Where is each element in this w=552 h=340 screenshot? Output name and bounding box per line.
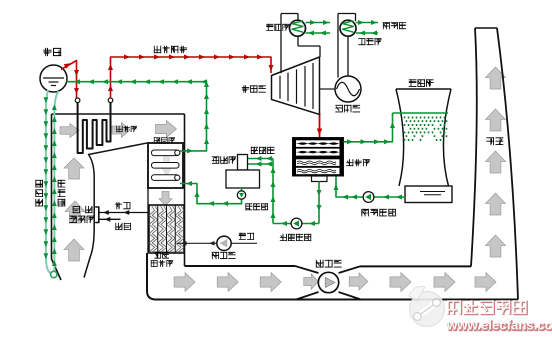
label 冷却塔 cooling tower	[409, 79, 434, 87]
waterwall lower header	[51, 271, 57, 277]
label 过热器 superheater	[116, 126, 137, 132]
circulating water pump	[363, 192, 374, 203]
generator	[335, 76, 361, 102]
watermark text 电子发烧友	[447, 300, 527, 315]
label 下降管 downcomer	[35, 180, 43, 207]
condenser tube bundles	[296, 140, 340, 147]
generator air cooler stand	[338, 13, 356, 15]
waterwall riser pipe	[54, 91, 58, 272]
condensate line into deaerator dome	[248, 163, 274, 165]
chimney top opening	[475, 27, 497, 29]
label 冷油器 oil cooler	[266, 24, 289, 31]
watermark text www.elecfans.com	[446, 318, 552, 334]
cooling tower spray droplets	[405, 117, 447, 141]
cooling tower basin	[405, 186, 452, 203]
duct left wall below air preheater	[147, 253, 156, 300]
flue gas arrow up in furnace 2	[65, 201, 85, 223]
flue gas arrow right at boiler top 3	[156, 121, 177, 138]
flue gas arrow right at boiler top 2	[112, 123, 130, 138]
label 预热器 air preheater line2	[151, 260, 173, 267]
chimney left wall	[471, 28, 477, 266]
flue gas arrows up in chimney	[486, 67, 506, 89]
label 烟囱 chimney	[486, 137, 503, 145]
bottom flue duct top edge left of fan	[185, 265, 296, 267]
cooling tower shell	[396, 89, 451, 186]
oil cooler stand	[281, 13, 298, 15]
duct venturi into induced draft fan	[295, 266, 319, 273]
label 吹风机 forced draft blower	[212, 252, 236, 259]
economizer box	[148, 143, 183, 188]
air preheater cell dividers	[157, 205, 159, 253]
label 循环水泵 circulating water pump	[361, 209, 396, 217]
air cooler cooling water out	[356, 22, 378, 24]
label 冷风 cold air	[239, 233, 254, 240]
main superheated steam pipe to turbine	[111, 57, 272, 98]
feedwater pump	[237, 191, 245, 199]
makeup water line into deaerator dome	[248, 158, 274, 160]
boiler left wall	[51, 114, 53, 259]
label 粉煤 coal powder	[115, 223, 131, 230]
deaerator tank	[226, 170, 260, 188]
bottom flue duct top edge right of fan	[360, 265, 471, 267]
duct venturi out of induced draft fan	[339, 266, 361, 273]
economizer tube rows	[152, 150, 180, 156]
chimney right wall	[497, 28, 518, 300]
oil cooler cooling water in	[306, 32, 331, 34]
superheater inlet header valve circle	[75, 98, 80, 103]
label 热风 hot air	[115, 202, 131, 209]
condenser shell	[293, 138, 344, 177]
economizer outlet pipe to drum	[67, 82, 207, 151]
oil cooler	[290, 20, 306, 36]
flue gas arrow right at boiler top 1	[60, 124, 79, 138]
rear gas pass left wall	[147, 143, 149, 253]
turbine blade rows	[279, 76, 281, 99]
svg-text:www.elecfans.com: www.elecfans.com	[446, 318, 552, 333]
air preheater matrix hatching	[149, 206, 184, 252]
flue gas arrows right in bottom duct	[174, 273, 195, 292]
label 给水泵 feedwater pump	[245, 203, 268, 210]
generator air cooler	[340, 20, 356, 36]
economizer outlet circle top	[175, 150, 180, 155]
boiler hopper left slope	[52, 259, 62, 280]
steam drum	[40, 65, 67, 92]
turbine exhaust steam pipe to condenser	[319, 113, 321, 137]
air preheater box	[149, 205, 184, 253]
label 发电机 generator	[335, 105, 360, 113]
superheater coil	[78, 103, 111, 153]
condenser hotwell	[312, 176, 328, 182]
watermark elecfans logo	[409, 286, 445, 326]
economizer inlet circle bottom	[175, 175, 180, 180]
label 煤粉 burner line1	[73, 206, 93, 213]
label 补充水 makeup water	[251, 147, 275, 154]
coal powder line to burner	[100, 218, 121, 220]
label 水冷壁 waterwall	[58, 180, 66, 207]
cooling tower spray header	[393, 112, 449, 114]
label 省煤器 economizer	[154, 137, 175, 143]
downcomer pipe	[46, 90, 54, 275]
condensate pipe hotwell down	[318, 182, 320, 224]
label 汽包 steam drum	[43, 48, 61, 56]
label 燃烧器 burner line2	[69, 216, 94, 224]
label 除氧器 deaerator	[212, 156, 236, 164]
flue gas arrow up in furnace 1	[64, 158, 84, 179]
flue gas arrow down between economizer and air preheater	[159, 192, 172, 206]
superheater outlet header valve circle	[108, 98, 113, 103]
condensate riser to deaerator	[272, 159, 274, 224]
label 过热蒸汽 superheated steam	[154, 46, 187, 53]
saturated steam pipe drum to superheater	[61, 61, 77, 99]
hot air line to burner	[100, 212, 150, 214]
label 循环水 circulating water	[383, 22, 406, 29]
condensate pipe to pump	[273, 223, 319, 225]
label 引风机 induced draft fan	[316, 260, 342, 268]
bottom flue duct bottom edge	[156, 299, 518, 301]
label 凝汽器 condenser	[346, 159, 370, 166]
deaerator dome	[238, 155, 248, 171]
circulating water pipe pump to condenser	[336, 177, 363, 198]
label 凝结水泵 condensate pump	[280, 234, 312, 241]
circulating water pipe basin to pump	[375, 196, 406, 198]
boiler roof	[52, 113, 185, 115]
cold air line through forced draft blower	[177, 242, 257, 244]
rear gas pass right wall	[184, 114, 186, 266]
turbine generator shaft	[320, 88, 336, 90]
pulverized coal burner	[95, 207, 99, 223]
induced draft fan	[318, 272, 338, 292]
air cooler cooling water in	[356, 32, 378, 34]
label 风冷器 air cooler	[358, 38, 381, 45]
furnace right wall with nose	[84, 143, 148, 278]
oil cooler cooling water out	[306, 22, 331, 24]
feedwater pipe pump to economizer	[180, 184, 242, 204]
flue gas ghost arrow down inside economizer	[160, 154, 173, 177]
label 空气 air preheater line1	[154, 252, 169, 259]
circulating water pipe condenser to tower	[344, 113, 393, 142]
flue gas arrow up in furnace 3	[64, 239, 84, 261]
forced draft blower	[217, 236, 231, 250]
label 汽轮机 steam turbine	[242, 85, 266, 92]
condensate pump	[291, 218, 302, 229]
steam turbine body	[272, 57, 320, 115]
